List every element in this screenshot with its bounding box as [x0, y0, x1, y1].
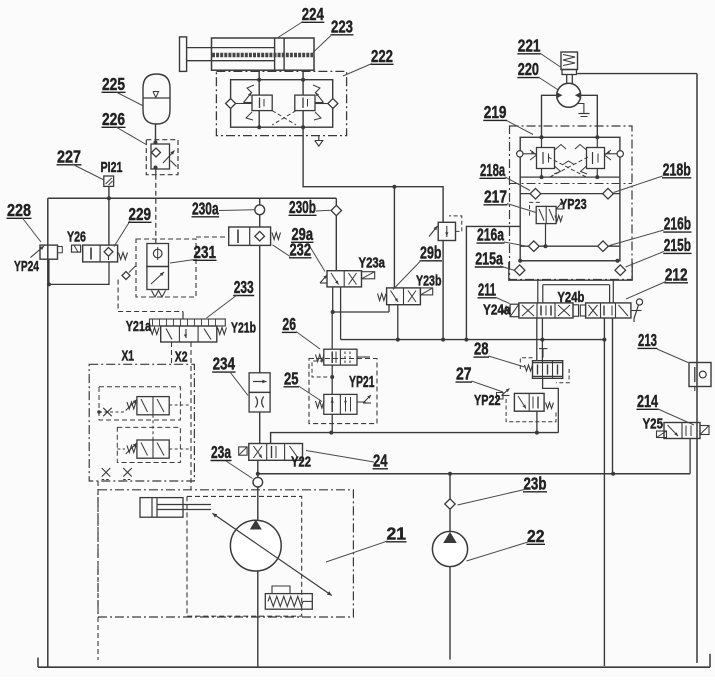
svg-text:221: 221 [518, 35, 541, 55]
svg-text:23a: 23a [211, 442, 231, 462]
svg-text:29b: 29b [420, 242, 442, 262]
svg-text:219: 219 [484, 102, 507, 122]
svg-text:27: 27 [456, 364, 472, 384]
svg-text:PI21: PI21 [101, 159, 123, 176]
svg-text:Y21a: Y21a [126, 319, 152, 335]
svg-text:Y23a: Y23a [359, 256, 386, 272]
svg-text:X1: X1 [122, 348, 135, 364]
svg-text:Y24b: Y24b [557, 289, 584, 306]
svg-text:227: 227 [57, 146, 81, 166]
svg-text:YP22: YP22 [474, 392, 501, 409]
svg-text:24: 24 [373, 450, 388, 470]
svg-text:225: 225 [102, 74, 125, 94]
svg-text:215b: 215b [664, 235, 691, 255]
svg-text:224: 224 [302, 4, 324, 24]
svg-text:Y26: Y26 [67, 228, 86, 245]
svg-text:YP24: YP24 [14, 258, 39, 275]
svg-text:Y23b: Y23b [416, 273, 442, 289]
svg-text:233: 233 [234, 277, 254, 297]
svg-text:220: 220 [518, 59, 539, 79]
svg-text:215a: 215a [475, 249, 503, 269]
svg-text:228: 228 [7, 200, 31, 220]
svg-text:23b: 23b [524, 473, 547, 493]
svg-text:218a: 218a [480, 160, 505, 180]
svg-text:217: 217 [484, 186, 507, 206]
svg-text:230a: 230a [192, 198, 219, 218]
svg-text:22: 22 [527, 526, 545, 546]
svg-text:230b: 230b [289, 197, 316, 217]
svg-text:28: 28 [474, 339, 489, 359]
svg-text:Y22: Y22 [291, 453, 311, 470]
svg-text:21: 21 [387, 523, 407, 543]
svg-text:26: 26 [282, 314, 296, 334]
svg-text:226: 226 [102, 109, 125, 129]
svg-text:229: 229 [129, 204, 152, 224]
svg-text:232: 232 [290, 239, 312, 259]
svg-text:X2: X2 [175, 350, 188, 366]
svg-text:YP21: YP21 [349, 374, 375, 391]
svg-text:Y21b: Y21b [231, 320, 256, 336]
svg-text:214: 214 [637, 391, 658, 411]
svg-text:223: 223 [331, 16, 353, 36]
svg-text:216b: 216b [664, 214, 691, 234]
svg-text:218b: 218b [663, 159, 691, 179]
svg-text:25: 25 [284, 368, 299, 388]
svg-text:213: 213 [638, 330, 657, 350]
svg-text:234: 234 [213, 354, 236, 374]
svg-text:YP23: YP23 [560, 196, 587, 213]
svg-text:231: 231 [194, 242, 217, 262]
svg-text:222: 222 [371, 46, 393, 66]
svg-text:Y25: Y25 [643, 415, 664, 432]
svg-text:Y24a: Y24a [483, 301, 511, 318]
svg-text:211: 211 [478, 279, 496, 299]
svg-text:212: 212 [665, 264, 688, 284]
svg-text:216a: 216a [477, 225, 504, 245]
